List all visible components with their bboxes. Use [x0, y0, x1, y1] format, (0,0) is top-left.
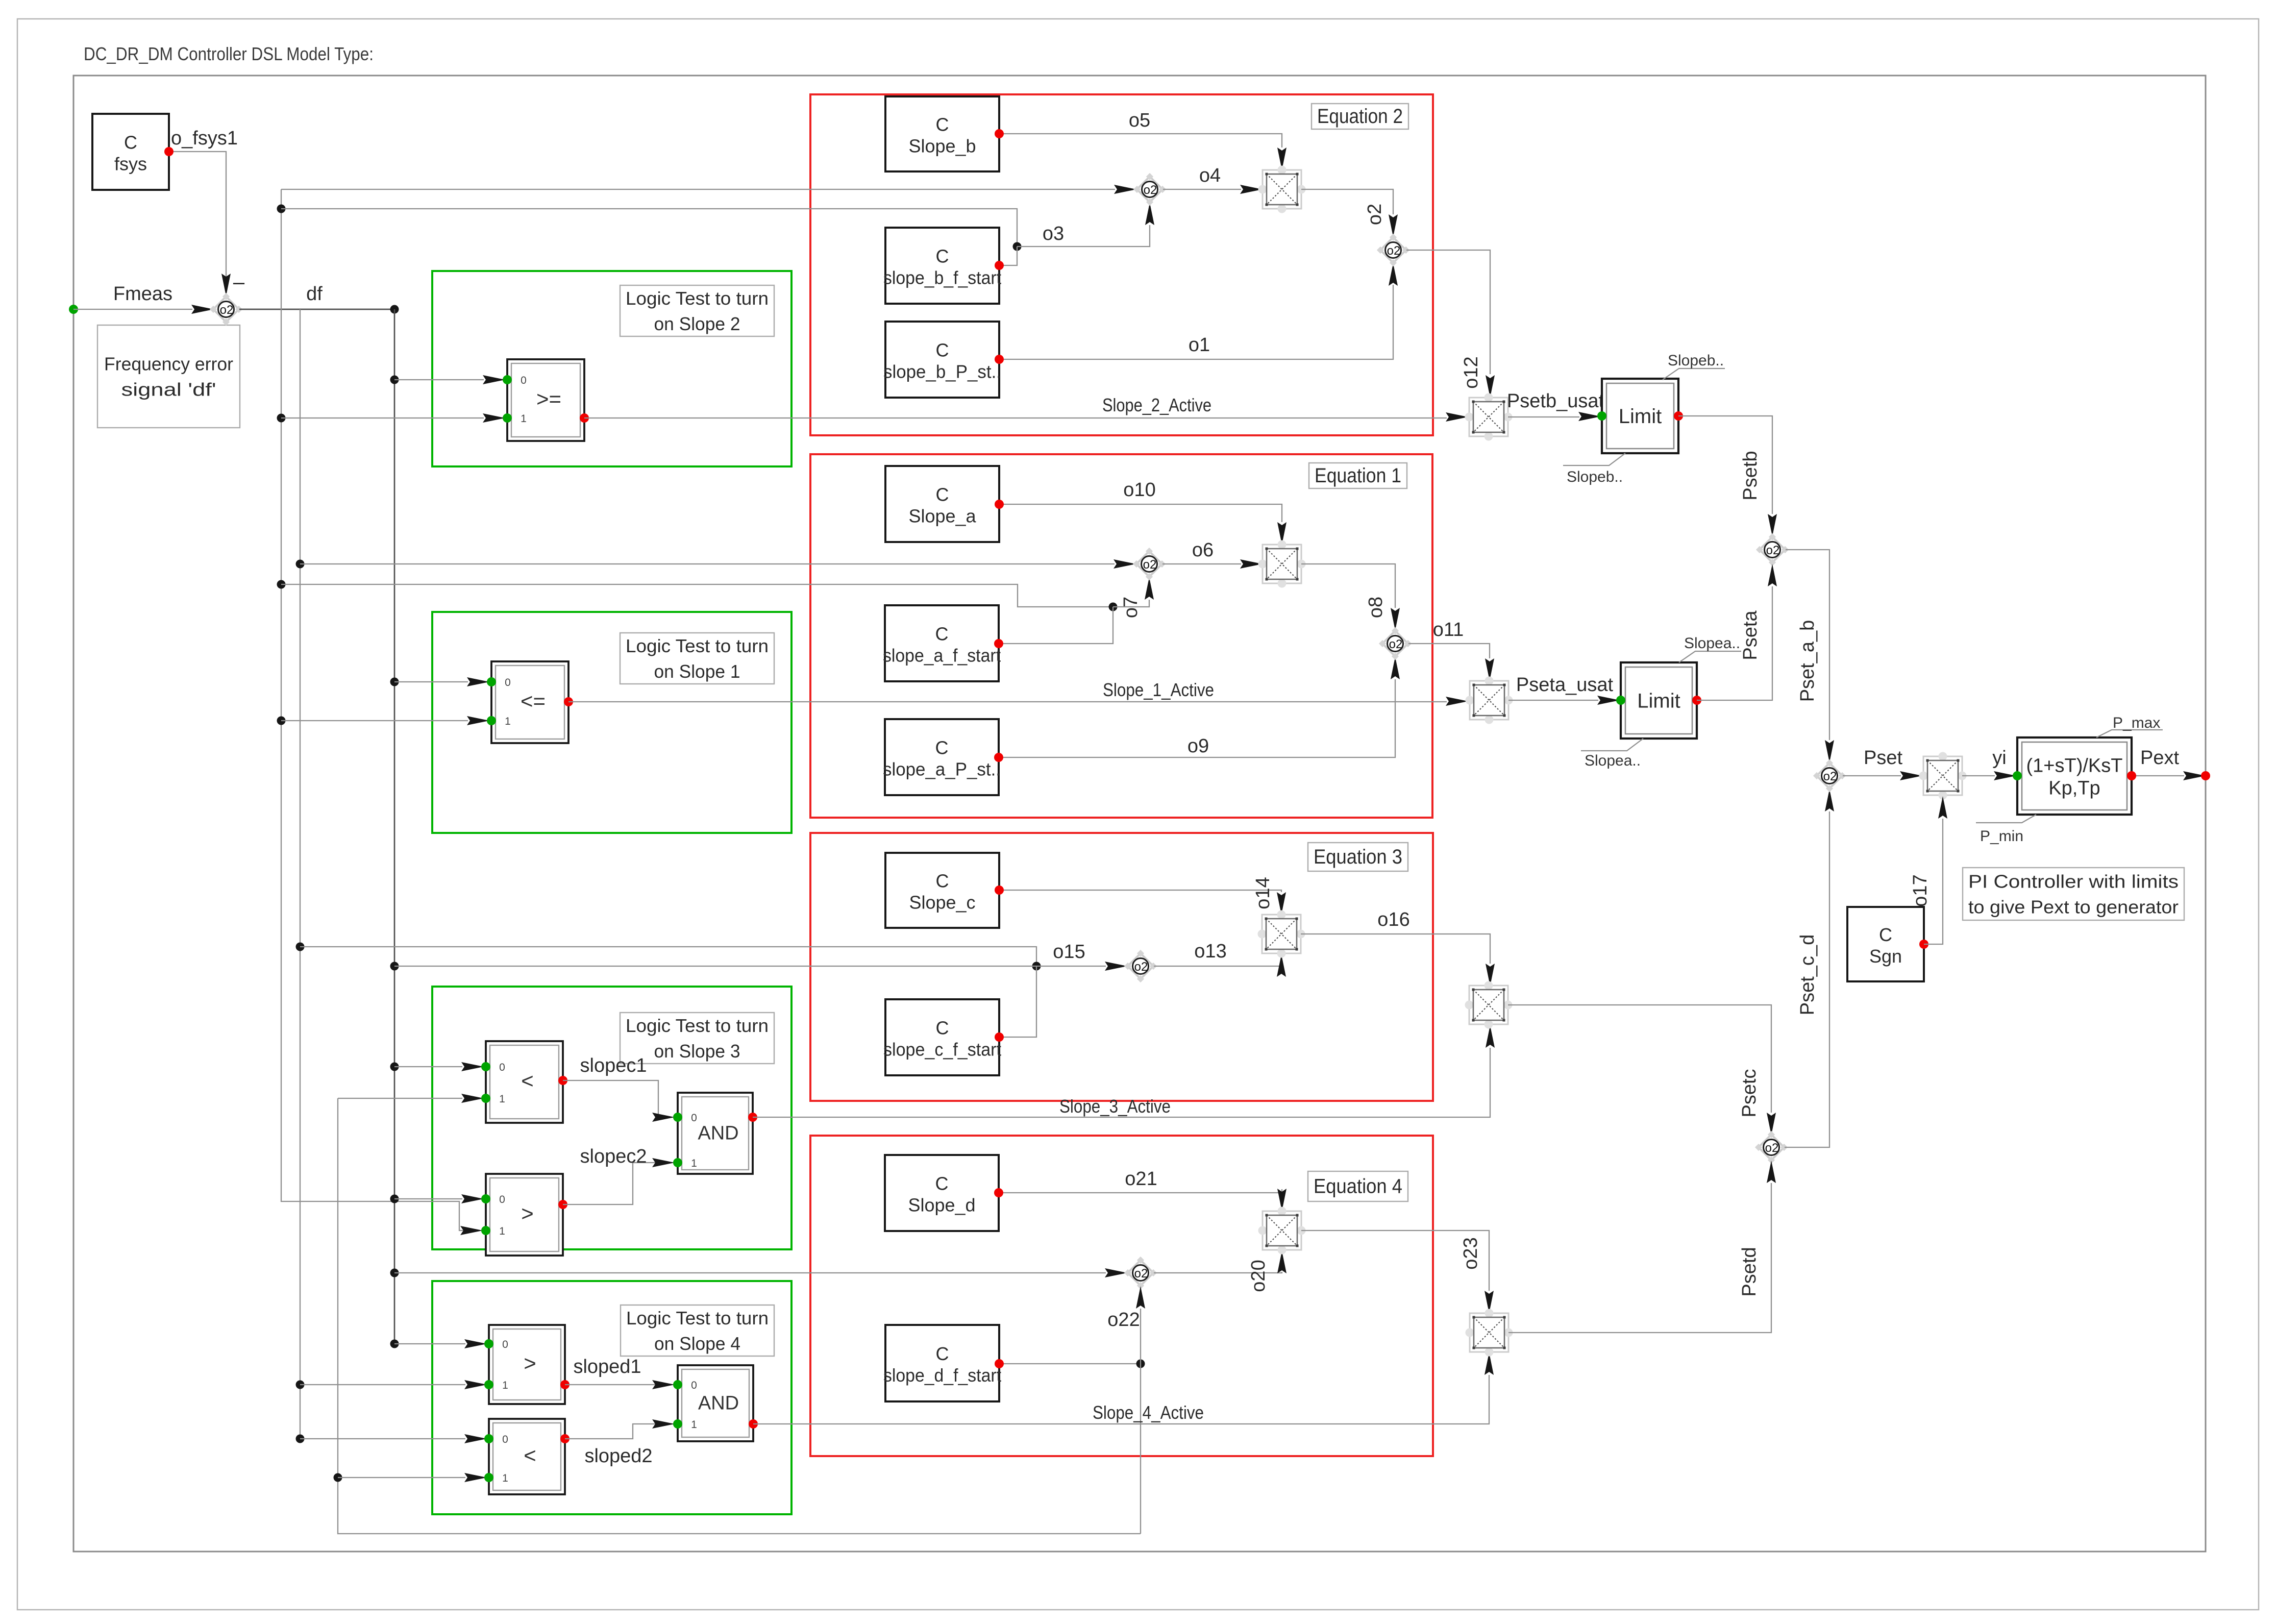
ports Limit a — [1616, 696, 1625, 705]
junction dot o15 — [1032, 962, 1041, 971]
svg-text:o10: o10 — [1123, 479, 1155, 501]
svg-text:>: > — [524, 1351, 536, 1375]
limiter Limit a — [1621, 662, 1697, 739]
svg-text:Slopea..: Slopea.. — [1585, 752, 1641, 769]
wire o20 from S_o20 to M_eq4 — [1154, 1272, 1282, 1273]
wire to GE in0 — [394, 379, 484, 380]
red group box: Equation 3 — [810, 833, 1433, 1101]
wire o6 — [1162, 563, 1241, 564]
svg-text:C: C — [936, 246, 949, 267]
svg-text:DC_DR_DM Controller DSL Model: DC_DR_DM Controller DSL Model Type: — [84, 43, 374, 64]
wire Psetb — [1678, 416, 1772, 514]
limiter Limit b — [1602, 379, 1678, 453]
green group box: Logic Test Slope 4 — [432, 1281, 791, 1514]
svg-text:o8: o8 — [1365, 597, 1387, 618]
svg-text:Psetd: Psetd — [1739, 1247, 1760, 1296]
svg-text:Slopea..: Slopea.. — [1684, 635, 1740, 652]
svg-text:o20: o20 — [1248, 1260, 1269, 1292]
svg-text:Equation 3: Equation 3 — [1314, 846, 1402, 868]
svg-text:Slope_b: Slope_b — [908, 136, 976, 157]
wire df row y1189 — [281, 584, 1113, 607]
svg-text:1: 1 — [505, 716, 511, 727]
wire slopec2 — [563, 1163, 655, 1204]
junction dots on trunk x588 — [296, 560, 305, 569]
svg-text:o1: o1 — [1189, 334, 1210, 356]
svg-text:C: C — [936, 484, 949, 505]
svg-text:C: C — [124, 132, 137, 153]
arrow Slope_2_Active into M_b — [1446, 412, 1468, 422]
svg-text:Slopeb..: Slopeb.. — [1567, 469, 1623, 485]
callout Slopeb upper — [1663, 352, 1725, 380]
summing junction S_pset — [1813, 759, 1846, 792]
wire o7 into S_o6 — [1113, 600, 1149, 607]
constant C Slope_b — [885, 96, 1004, 171]
svg-text:o2: o2 — [1387, 244, 1401, 258]
wire o17 — [1924, 819, 1943, 944]
ports Limit b — [1597, 411, 1606, 421]
svg-text:1: 1 — [499, 1093, 505, 1105]
wire o21 — [999, 1189, 1282, 1193]
wire slope_c_f_start riser — [999, 966, 1036, 1037]
svg-text:Slope_2_Active: Slope_2_Active — [1102, 395, 1211, 415]
constant C slope_b_P_st.. — [883, 322, 1004, 398]
svg-text:Frequency error: Frequency error — [104, 354, 233, 375]
wire to LT3 in0 — [394, 1066, 462, 1067]
wire Slope_4_Active — [753, 1375, 1489, 1424]
svg-text:o2: o2 — [1765, 1141, 1779, 1155]
junction dots on trunk x551 — [277, 205, 286, 213]
green group box: Logic Test Slope 2 — [432, 271, 791, 466]
svg-text:Pset_c_d: Pset_c_d — [1797, 934, 1818, 1015]
wire to GT3 in0 — [394, 1198, 462, 1199]
wire M_eq2 out to S_o2 — [1301, 189, 1393, 214]
text box: PI Controller note — [1963, 868, 2184, 920]
multiplier M_a (Pseta_usat) — [1466, 677, 1513, 724]
wire o22 riser — [1140, 1309, 1141, 1364]
svg-text:Logic Test to turn: Logic Test to turn — [626, 1308, 769, 1328]
wire to LE in0 — [394, 681, 468, 682]
wire o8 from M_eq1 — [1301, 564, 1395, 608]
constant C Slope_d — [885, 1155, 1003, 1231]
summing junction S_df — [210, 293, 242, 326]
constant C slope_a_f_start — [883, 605, 1003, 681]
svg-text:o2: o2 — [1766, 544, 1780, 557]
svg-text:C: C — [936, 1343, 949, 1364]
junction dots on trunk x662 — [334, 1473, 342, 1482]
wire to LT3 in1 — [338, 1098, 462, 1099]
terminal Pext red dots — [2127, 771, 2136, 780]
callout P_max — [2096, 715, 2163, 737]
svg-text:Pseta: Pseta — [1740, 610, 1761, 660]
svg-text:Slope_c: Slope_c — [909, 892, 975, 913]
svg-text:Slope_3_Active: Slope_3_Active — [1059, 1096, 1171, 1117]
svg-text:o12: o12 — [1461, 356, 1482, 388]
text box: Logic Test to turn on Slope 3 — [620, 1013, 774, 1064]
wire trunk x551 — [281, 189, 479, 1231]
svg-text:o7: o7 — [1120, 597, 1142, 618]
svg-text:<: < — [524, 1443, 536, 1467]
wire yi — [1962, 775, 1995, 776]
svg-text:o2: o2 — [1143, 558, 1157, 572]
svg-text:Slope_4_Active: Slope_4_Active — [1093, 1402, 1204, 1423]
wire sloped2 — [565, 1424, 655, 1439]
svg-text:o17: o17 — [1910, 874, 1931, 906]
constant C Sgn — [1847, 907, 1928, 981]
svg-text:slope_a_P_st..: slope_a_P_st.. — [883, 759, 1001, 780]
wire slopec1 — [563, 1080, 658, 1117]
constant C slope_d_f_start — [883, 1325, 1004, 1401]
multiplier M_b (Psetb_usat) — [1465, 393, 1513, 441]
wire o5 — [999, 134, 1282, 147]
svg-text:slope_b_P_st..: slope_b_P_st.. — [883, 361, 1001, 382]
arrow o12 into M_b — [1486, 375, 1495, 398]
callout Slopea lower — [1581, 739, 1643, 769]
wire o23 — [1301, 1231, 1489, 1291]
wire Pseta — [1697, 586, 1772, 700]
svg-text:C: C — [935, 1173, 949, 1194]
svg-text:Pseta_usat: Pseta_usat — [1516, 674, 1614, 696]
svg-text:Slopeb..: Slopeb.. — [1668, 352, 1724, 369]
red group box: Equation 2 — [810, 94, 1433, 435]
callout Slopeb lower — [1563, 453, 1625, 485]
svg-text:on Slope 3: on Slope 3 — [654, 1041, 740, 1062]
wire df row y409 — [281, 209, 1017, 247]
multiplier M_d (Psetd) — [1466, 1309, 1513, 1357]
wire Pset_c_d — [1785, 811, 1829, 1147]
logic AND4 — [673, 1365, 758, 1441]
PI block (1+sT)/KsT — [2017, 737, 2132, 815]
svg-text:P_min: P_min — [1980, 828, 2023, 845]
wire o11 — [1408, 644, 1490, 658]
svg-text:–: – — [233, 271, 245, 293]
svg-text:slopec1: slopec1 — [580, 1055, 647, 1076]
svg-text:C: C — [936, 340, 949, 361]
wire to LE in1 — [281, 720, 468, 721]
svg-text:o9: o9 — [1188, 735, 1209, 757]
svg-text:Psetc: Psetc — [1739, 1069, 1760, 1117]
svg-text:0: 0 — [691, 1112, 697, 1124]
multiplier M_eq1 — [1258, 540, 1306, 588]
svg-text:slope_b_f_start: slope_b_f_start — [883, 267, 1001, 288]
svg-text:sloped1: sloped1 — [573, 1356, 641, 1377]
svg-text:o2: o2 — [220, 303, 234, 317]
summing junction S_o11 — [1379, 627, 1412, 660]
constant C slope_a_P_st.. — [883, 719, 1003, 795]
constant C slope_c_f_start — [883, 999, 1004, 1075]
svg-text:P_max: P_max — [2113, 715, 2160, 731]
summing junction S_o4 — [1133, 173, 1166, 206]
svg-text:1: 1 — [691, 1419, 697, 1431]
svg-text:o13: o13 — [1194, 941, 1226, 962]
svg-text:o3: o3 — [1043, 223, 1064, 244]
svg-text:C: C — [1879, 924, 1892, 945]
svg-text:1: 1 — [502, 1472, 508, 1484]
wire df row y1105 to S_o6 — [300, 563, 1115, 564]
input terminal Fmeas — [69, 305, 78, 314]
svg-text:slope_c_f_start: slope_c_f_start — [883, 1039, 1001, 1060]
wire Fmeas — [73, 309, 192, 310]
svg-text:o6: o6 — [1192, 539, 1214, 561]
svg-text:Equation 4: Equation 4 — [1314, 1175, 1402, 1198]
wire Pext — [2132, 775, 2184, 776]
summing junction S_ab — [1756, 533, 1789, 566]
svg-text:AND: AND — [698, 1123, 738, 1144]
text box: Logic Test to turn on Slope 1 — [620, 633, 774, 684]
svg-text:Psetb_usat: Psetb_usat — [1507, 390, 1604, 412]
svg-text:Sgn: Sgn — [1869, 946, 1902, 967]
junction dot o22 — [1136, 1360, 1145, 1368]
svg-text:fsys: fsys — [114, 154, 147, 175]
svg-text:<=: <= — [521, 689, 546, 713]
junction dot o7 — [1109, 603, 1118, 611]
svg-text:Pset: Pset — [1864, 747, 1902, 769]
wire sloped1 — [565, 1384, 655, 1385]
comparator LT4 < — [484, 1419, 570, 1494]
svg-text:o4: o4 — [1199, 165, 1221, 186]
svg-text:1: 1 — [499, 1225, 505, 1237]
svg-text:1: 1 — [502, 1380, 508, 1391]
svg-text:on Slope 1: on Slope 1 — [654, 661, 740, 682]
svg-text:on Slope 2: on Slope 2 — [654, 313, 740, 334]
wire o_fsys1 (fsys output down to sum) — [169, 152, 226, 284]
svg-text:Pset_a_b: Pset_a_b — [1797, 620, 1818, 702]
wire Pset_a_b — [1786, 550, 1829, 740]
wire o14 — [999, 890, 1281, 892]
wire to GT4 in0 — [394, 1343, 465, 1344]
svg-text:0: 0 — [499, 1062, 505, 1073]
comparator GT4 > — [484, 1325, 570, 1404]
svg-text:0: 0 — [505, 677, 511, 688]
comparator LT3 < — [481, 1041, 567, 1123]
svg-text:Slope_1_Active: Slope_1_Active — [1103, 679, 1214, 700]
svg-text:0: 0 — [499, 1194, 505, 1205]
svg-text:o21: o21 — [1125, 1168, 1157, 1190]
wire slope_a_f_start jog o7 — [999, 607, 1113, 644]
svg-text:Equation 1: Equation 1 — [1315, 464, 1401, 487]
svg-text:Logic Test to turn: Logic Test to turn — [626, 1015, 769, 1036]
wire Slope_1_Active — [568, 701, 1447, 702]
wire df row y371 to S_o4 — [281, 189, 1115, 190]
svg-text:C: C — [935, 737, 949, 758]
svg-text:on Slope 4: on Slope 4 — [654, 1333, 740, 1354]
summing junction S_cd — [1755, 1131, 1788, 1164]
wire to GE in1 — [281, 417, 484, 419]
wire o9 — [999, 679, 1395, 757]
label box Equation 4 — [1308, 1171, 1408, 1201]
svg-text:Logic Test to turn: Logic Test to turn — [626, 288, 769, 309]
svg-text:C: C — [936, 1018, 949, 1039]
text box: Frequency error signal 'df' — [97, 325, 240, 428]
wire Slope_2_Active — [584, 417, 1447, 419]
green group box: Logic Test Slope 3 — [432, 987, 791, 1249]
junction dot o3 — [1013, 242, 1022, 251]
svg-text:AND: AND — [698, 1393, 739, 1414]
svg-text:o23: o23 — [1460, 1237, 1481, 1269]
wire o1 — [999, 285, 1393, 359]
svg-text:o2: o2 — [1134, 960, 1148, 974]
svg-text:1: 1 — [521, 413, 527, 425]
svg-text:o2: o2 — [1144, 183, 1157, 197]
label box Equation 2 — [1312, 104, 1408, 129]
constant C fsys — [92, 114, 174, 190]
wire o4 — [1163, 189, 1241, 190]
multiplier M_eq4 — [1258, 1207, 1306, 1254]
constant C slope_b_f_start — [883, 228, 1004, 304]
red group box: Equation 1 — [810, 454, 1432, 818]
wire Psetc — [1508, 1005, 1771, 1113]
wire Slope_3_Active — [753, 1048, 1490, 1117]
text box: Logic Test to turn on Slope 2 — [620, 285, 774, 336]
wire trunk x773 (df branch) — [394, 309, 395, 1344]
wire Pset — [1843, 775, 1901, 776]
multiplier M_yi — [1919, 752, 1967, 800]
svg-text:df: df — [306, 283, 323, 305]
svg-text:Logic Test to turn: Logic Test to turn — [626, 635, 769, 656]
wire o15 feed y1855 — [300, 947, 1036, 966]
svg-text:o11: o11 — [1433, 619, 1464, 641]
svg-text:Psetb: Psetb — [1740, 451, 1761, 500]
summing junction S_o13 — [1124, 950, 1157, 982]
svg-text:sloped2: sloped2 — [584, 1445, 652, 1467]
svg-text:0: 0 — [521, 375, 527, 386]
ports PI block — [2013, 771, 2022, 780]
svg-text:Limit: Limit — [1619, 405, 1662, 428]
callout Slopea upper — [1679, 635, 1741, 662]
svg-text:o16: o16 — [1377, 909, 1409, 930]
svg-text:Kp,Tp: Kp,Tp — [2048, 778, 2100, 799]
svg-text:C: C — [936, 871, 949, 892]
svg-text:PI Controller with limits: PI Controller with limits — [1968, 871, 2179, 892]
wire to LT4 in1 — [338, 1477, 465, 1478]
wire o22 from slope_d_f_start — [999, 1363, 1141, 1364]
label box Equation 1 — [1309, 463, 1407, 488]
constant C Slope_c — [885, 853, 1004, 928]
junction dots on trunk x773 — [390, 376, 399, 384]
svg-text:>: > — [521, 1201, 534, 1225]
svg-text:o22: o22 — [1107, 1309, 1140, 1331]
svg-text:C: C — [936, 114, 949, 135]
wire to GT4 in1 — [300, 1384, 465, 1385]
svg-text:o_fsys1: o_fsys1 — [171, 128, 238, 149]
wire to LT4 in0 — [300, 1438, 465, 1439]
svg-text:o15: o15 — [1053, 941, 1085, 963]
wire d_f_start bottom loop — [1140, 1364, 1141, 1534]
wire o15 into S_o13 — [394, 966, 1106, 967]
comparator GT3 > — [481, 1174, 567, 1256]
svg-text:(1+sT)/KsT: (1+sT)/KsT — [2026, 755, 2123, 777]
svg-text:slope_a_f_start: slope_a_f_start — [883, 645, 1001, 666]
svg-text:Slope_a: Slope_a — [908, 506, 976, 527]
svg-text:0: 0 — [502, 1434, 508, 1445]
multiplier M_eq3 — [1258, 911, 1305, 958]
wire o13 — [1154, 965, 1281, 966]
logic AND3 — [673, 1093, 757, 1174]
multiplier M_c (Psetc) — [1465, 981, 1513, 1029]
comparator GE >= — [503, 359, 589, 441]
svg-text:slope_d_f_start: slope_d_f_start — [883, 1365, 1001, 1386]
svg-text:Equation 2: Equation 2 — [1317, 105, 1403, 128]
wire df — [239, 309, 394, 310]
svg-text:0: 0 — [691, 1380, 697, 1391]
wire o16 — [1301, 934, 1490, 964]
wire Psetb_usat — [1508, 416, 1579, 417]
svg-text:Fmeas: Fmeas — [113, 283, 172, 305]
svg-text:C: C — [935, 624, 949, 645]
wire trunk x588 — [300, 309, 301, 1439]
svg-text:signal 'df': signal 'df' — [121, 379, 216, 400]
svg-text:>=: >= — [536, 387, 561, 411]
wire trunk x662 — [338, 1098, 1141, 1534]
svg-text:yi: yi — [1992, 747, 2006, 769]
wire o10 — [999, 504, 1282, 522]
green group box: Logic Test Slope 1 — [432, 612, 791, 833]
wire df row y2495 to S_o20 — [394, 1272, 1106, 1273]
svg-text:Limit: Limit — [1637, 690, 1680, 712]
label box Equation 3 — [1308, 843, 1408, 871]
svg-text:slopec2: slopec2 — [580, 1146, 647, 1167]
svg-text:o2: o2 — [1364, 204, 1386, 225]
multiplier M_eq2 — [1258, 166, 1306, 213]
svg-text:o2: o2 — [1389, 637, 1403, 651]
svg-text:o2: o2 — [1134, 1267, 1148, 1281]
svg-text:o2: o2 — [1823, 770, 1837, 783]
svg-text:<: < — [521, 1069, 534, 1093]
constant C Slope_a — [885, 466, 1004, 542]
svg-text:Pext: Pext — [2140, 747, 2179, 769]
callout P_min — [1976, 815, 2036, 845]
wire o12 — [1406, 250, 1490, 374]
svg-text:o5: o5 — [1129, 110, 1150, 131]
wire Pseta_usat — [1508, 700, 1598, 701]
text box: Logic Test to turn on Slope 4 — [621, 1305, 774, 1356]
svg-text:to give Pext to generator: to give Pext to generator — [1968, 897, 2179, 918]
svg-text:Slope_d: Slope_d — [908, 1195, 975, 1216]
summing junction S_o20 — [1124, 1257, 1157, 1289]
red group box: Equation 4 — [810, 1136, 1433, 1456]
wire slope_b_f_start jog — [999, 247, 1017, 265]
arrow Slope_1_Active into M_a — [1446, 697, 1468, 706]
comparator LE <= — [487, 661, 573, 743]
svg-text:o14: o14 — [1252, 877, 1274, 909]
svg-text:1: 1 — [691, 1158, 697, 1169]
svg-text:0: 0 — [502, 1339, 508, 1350]
summing junction S_o2 — [1377, 234, 1409, 266]
wire o3 — [1017, 225, 1150, 247]
summing junction S_o6 — [1133, 548, 1166, 580]
wire Psetd — [1508, 1183, 1771, 1333]
